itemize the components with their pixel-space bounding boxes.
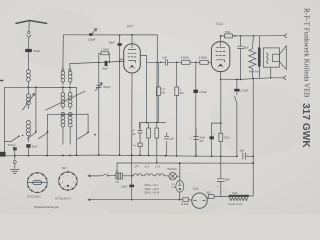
mains line arrow (88, 175, 100, 177)
chassis terminal block (0, 152, 6, 157)
svg-text:+: + (190, 136, 192, 140)
wire horizontal tap line (5, 87, 77, 139)
plug to resistor 50 (207, 197, 208, 200)
socket diagram 1 (27, 173, 47, 193)
barretter to plug (179, 192, 181, 200)
hook terminal top (284, 34, 287, 38)
wire speaker to bus (270, 67, 272, 78)
coil L7 (68, 87, 72, 144)
capacitor 50uF (131, 155, 133, 200)
coil L4 (RF transformer primary) (61, 71, 65, 85)
svg-text:D17: D17 (62, 166, 68, 170)
svg-text:CY1: CY1 (155, 164, 161, 168)
resistor (155, 128, 159, 138)
antenna (16, 21, 47, 24)
svg-text:MΩ: MΩ (180, 92, 184, 95)
top line left (grid circuit) (63, 35, 157, 63)
ground (10, 170, 19, 174)
tuning arrow through L2 (23, 94, 35, 111)
wire (167, 163, 180, 180)
svg-text:8µF: 8µF (225, 177, 230, 181)
tube CF7 anode lead (140, 56, 146, 123)
antenna lead (28, 21, 30, 31)
grid line (70, 61, 124, 63)
svg-text:CF7: CF7 (134, 164, 140, 168)
tube CF7 cathode lead (131, 73, 133, 155)
coil L1 (antenna coil) (26, 70, 30, 82)
svg-text:5nF: 5nF (162, 55, 167, 59)
capacitor (blob) on antenna column (26, 144, 30, 148)
switch S1c (87, 131, 89, 133)
svg-text:370µH: 370µH (8, 143, 16, 147)
socket 2 pin numbers (62, 175, 75, 188)
svg-text:70Ω: 70Ω (225, 30, 230, 34)
capacitor 50pF (grid) (105, 61, 108, 66)
svg-text:CL4: CL4 (144, 164, 149, 168)
svg-text:Rest-Feld: Rest-Feld (249, 70, 260, 73)
tube CL4 internals (216, 36, 225, 48)
svg-text:0.5MΩ: 0.5MΩ (181, 56, 189, 60)
capacitor 0.05uF blob (193, 90, 198, 93)
output transformer (258, 36, 260, 48)
capacitor 30pF (119, 35, 121, 155)
svg-text:0.05µF: 0.05µF (199, 91, 207, 94)
variable capacitor 500pF (96, 85, 101, 87)
barretter tube (176, 181, 184, 193)
capacitor 50pF (antenna series) (25, 49, 32, 52)
svg-text:Feld: Feld (232, 191, 238, 195)
screen line (139, 62, 165, 128)
capacitor 8uF (main filter) (217, 156, 224, 196)
wire switch frame (35, 87, 37, 131)
node (62, 86, 64, 88)
svg-text:1µF: 1µF (170, 137, 175, 140)
left edge mark (0, 80, 3, 82)
socket 2 pins (58, 171, 77, 191)
switch S1b (47, 114, 49, 131)
earth connection (13, 156, 16, 168)
svg-text:CL4: CL4 (216, 22, 222, 26)
svg-text:Feldspule: Feldspule (228, 202, 243, 206)
mains return line arrow (88, 199, 183, 201)
capacitor + resistor pair (138, 123, 142, 156)
wire tap line (48, 114, 89, 131)
svg-text:MΩ: MΩ (161, 92, 165, 95)
coil L2 (variometer) (26, 87, 30, 108)
switch S1a (5, 136, 19, 141)
resistor 70 Ohm (225, 34, 233, 38)
svg-text:50µF: 50µF (32, 146, 38, 149)
svg-text:0.5MΩ: 0.5MΩ (199, 56, 207, 60)
svg-text:30V: 30V (199, 140, 204, 143)
svg-text:Ur: Ur (116, 170, 119, 173)
anode line (147, 61, 165, 63)
coil L6 (61, 87, 65, 144)
chassis bus (5, 155, 254, 156)
node coil top rings (62, 69, 64, 71)
electrolytic 25uF 30V (194, 128, 199, 156)
Urdox resistor U (116, 173, 123, 179)
capacitor 1uF (164, 133, 169, 156)
svg-text:50pF: 50pF (102, 66, 109, 70)
tone switch (235, 91, 237, 156)
tube CF7 (124, 44, 141, 73)
bus junction dots (14, 154, 238, 157)
hook terminal lower (283, 76, 286, 80)
top B+ line (221, 35, 285, 37)
svg-text:Sockelschaltungen: Sockelschaltungen (34, 205, 60, 209)
coupling capacitor 5000pF (165, 59, 167, 65)
node (98, 62, 100, 64)
antenna socket (27, 31, 31, 49)
resistor (screen) (147, 128, 151, 138)
socket 1 pins (27, 172, 47, 193)
heater supply line (117, 162, 253, 164)
cathode line CL4 to speaker (221, 78, 284, 80)
svg-text:500pF: 500pF (103, 85, 111, 89)
svg-text:8µF: 8µF (244, 46, 249, 50)
node coil taps (62, 114, 64, 116)
wire left frame (4, 87, 6, 156)
node (157, 62, 159, 64)
svg-text:CF7: CF7 (127, 25, 134, 29)
coil L5 (RF transformer secondary) (68, 71, 72, 85)
svg-text:R-F-T Funkwerk Kölleda VEB: R-F-T Funkwerk Kölleda VEB (303, 8, 311, 98)
capacitor 8uF (screen bypass) (238, 36, 244, 80)
switch wiper diagonal (46, 91, 86, 110)
title text (303, 8, 311, 98)
field winding (Restfeld) (249, 36, 256, 78)
resistor 1.5M vertical (156, 87, 160, 96)
tube CF7 internals (128, 35, 136, 50)
wire (27, 82, 29, 88)
cathode chain CL4 (220, 72, 222, 134)
svg-text:CF7/CL4/CY1: CF7/CL4/CY1 (55, 196, 72, 200)
cathode bypass branch (212, 122, 221, 124)
tube CL4 (211, 42, 229, 72)
switch S1d (27, 132, 36, 138)
resistor 1M vertical (175, 87, 179, 96)
coil L3 (26, 121, 30, 142)
wire (27, 52, 29, 69)
mains switch (100, 174, 107, 176)
svg-text:MΩ: MΩ (132, 133, 136, 136)
socket diagram 2 (59, 172, 77, 190)
svg-text:30pF: 30pF (109, 41, 116, 45)
trimmer capacitor 100pF (89, 33, 92, 36)
capacitor 4uF (in bus) (243, 153, 246, 159)
speaker (263, 48, 279, 67)
tone capacitor 0.05uF (236, 79, 238, 81)
resistor 0.1M cathode (219, 133, 223, 141)
node antenna tap (28, 86, 30, 88)
svg-text:2V 32 ZW.Z: 2V 32 ZW.Z (27, 194, 41, 198)
series resistor St 40 (183, 198, 189, 202)
